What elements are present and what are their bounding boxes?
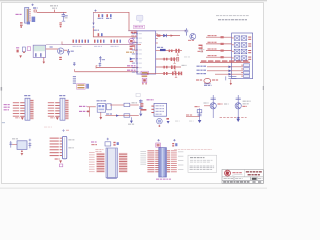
input net label 2 (magenta) xyxy=(79,111,87,112)
ground right xyxy=(139,114,142,117)
cap legs Q2 xyxy=(211,98,216,100)
top page edge shade (decorative) xyxy=(0,0,267,1)
wire to U6 xyxy=(12,143,17,145)
title block frame xyxy=(222,170,263,184)
ground left xyxy=(19,55,22,58)
net label VIN xyxy=(33,7,38,8)
IC U5 label (magenta) xyxy=(147,99,154,100)
net label (gray) xyxy=(50,5,58,6)
IC K1 relay block outline xyxy=(232,33,253,79)
net label bus2 (magenta) xyxy=(127,70,136,71)
ground dash under C2 xyxy=(62,20,65,23)
Q2 base wire xyxy=(204,105,210,107)
address text (dark red) xyxy=(246,171,262,175)
CN2 power flag xyxy=(62,129,65,132)
wire row A xyxy=(128,30,186,32)
row2 cap xyxy=(171,57,175,61)
SK1 right pin field xyxy=(119,153,128,173)
stub wire xyxy=(186,116,200,118)
cap C5 xyxy=(226,76,237,80)
stub net label xyxy=(195,106,200,107)
U10 left edge components xyxy=(132,45,138,50)
series resistor row 4 xyxy=(221,56,224,58)
resistor network RN8 xyxy=(77,84,86,90)
relay aux boxes right column xyxy=(241,64,249,78)
node stem red xyxy=(88,107,90,117)
stub box xyxy=(197,110,202,113)
label C6 xyxy=(71,51,74,52)
output wire row 3 xyxy=(215,73,243,75)
coil wire row 1 xyxy=(206,36,232,38)
label clk xyxy=(132,102,138,103)
crystal Y1 area xyxy=(99,56,102,62)
relay contact pair K1-1 xyxy=(232,36,247,41)
right branch diode + parts xyxy=(126,46,134,62)
resistor R in xyxy=(140,103,146,110)
sheet title line 2 xyxy=(218,19,247,20)
connector J1 bottom ground xyxy=(21,117,24,120)
SK1 top resistor xyxy=(113,142,118,146)
connector J2 right pin field xyxy=(65,100,68,120)
net label bus1 (magenta) xyxy=(127,65,136,66)
label input stub xyxy=(198,51,204,52)
cap legs Q3 xyxy=(236,98,241,100)
row2 end part xyxy=(176,57,178,61)
series resistor row 1 xyxy=(221,36,224,38)
label C2 value xyxy=(65,15,68,16)
oscillator X1 xyxy=(97,104,105,113)
red arrow below E row xyxy=(230,80,232,86)
stub ground xyxy=(198,120,202,123)
relay pin dots row 2 xyxy=(248,43,251,46)
SK2 caption (magenta) xyxy=(156,179,171,180)
bottom red part row xyxy=(196,78,218,83)
testpoint label xyxy=(50,46,53,47)
op-amp U3 xyxy=(58,48,64,54)
input stub component xyxy=(199,45,203,49)
wire second run xyxy=(93,28,137,37)
buffer U4 xyxy=(107,104,112,110)
node dot U6 xyxy=(21,150,23,152)
connector J2 bottom label xyxy=(50,116,55,119)
resistor R6 xyxy=(134,32,137,34)
relay contact pair K1-3 xyxy=(232,49,247,54)
connector J2 left pins + labels xyxy=(48,102,60,117)
SK1 body xyxy=(106,148,117,178)
power flag xyxy=(94,10,96,12)
fuse F1 xyxy=(34,10,36,12)
net label out 1 xyxy=(197,66,207,67)
label column small xyxy=(73,76,76,84)
oscillator X1 label xyxy=(97,100,107,101)
Q3 labels xyxy=(242,101,250,107)
SK2 left pin rows xyxy=(147,150,158,172)
node stem xyxy=(92,12,94,25)
row3 net label right xyxy=(182,65,187,66)
diode D out 1 xyxy=(229,66,232,69)
wire row B xyxy=(156,35,180,37)
ground stem below xyxy=(130,117,133,123)
U10 inner pin texts xyxy=(139,33,142,72)
connector J2 bottom ground xyxy=(56,117,59,120)
company name (red) xyxy=(232,172,242,175)
wire top run xyxy=(93,12,137,37)
connector CN1 body xyxy=(25,8,29,24)
wire VIN rail xyxy=(37,11,67,13)
resistor bank row baseline wire xyxy=(62,44,141,46)
capacitor C3 (blue box) xyxy=(27,22,30,25)
diode lower xyxy=(116,114,119,116)
crystal Y2 below U5 xyxy=(157,118,163,127)
ground X1 xyxy=(99,112,102,119)
ground sym xyxy=(92,23,94,25)
series caps right xyxy=(139,99,143,113)
capacitor C10 xyxy=(9,141,12,148)
diode D2 xyxy=(163,34,166,37)
faint pink dashes above CN2 xyxy=(44,126,52,129)
sheet title line 1 xyxy=(216,15,249,16)
row1 inductor L1 (dark blue) xyxy=(160,49,166,51)
resistor bank sub-labels xyxy=(73,45,119,48)
resistor R3 pair xyxy=(106,14,111,17)
relay pin dots row 1 xyxy=(248,37,251,40)
label below ground xyxy=(128,124,134,125)
faint net label right of rows xyxy=(184,56,190,59)
coil wire row 2 xyxy=(206,43,232,45)
regulator U2 xyxy=(33,45,45,57)
net label out 2 xyxy=(197,70,207,71)
stub cap xyxy=(198,114,202,116)
transistor Q1 xyxy=(190,33,196,39)
resistor R2 pair xyxy=(98,14,103,17)
wire clk 2 xyxy=(130,104,139,106)
wire U2 out xyxy=(46,48,58,50)
faint corner text xyxy=(199,49,204,52)
relay contact pair K1-4 xyxy=(232,56,247,61)
SK2 top cap 2 xyxy=(172,139,177,147)
power flag +V xyxy=(31,4,33,6)
wire U3 out xyxy=(64,49,68,51)
row1 wire xyxy=(156,50,182,52)
capacitor C4 xyxy=(185,28,189,35)
box lower xyxy=(124,114,130,117)
U10 left pin labels xyxy=(132,33,138,72)
CN2 flag label xyxy=(66,129,69,132)
net label row 2 xyxy=(208,42,217,43)
collector line Q2 xyxy=(212,95,214,118)
SK2 far-left gray labels xyxy=(140,151,146,164)
small parts left of U2 xyxy=(16,47,31,53)
bus wire 1 with arrow xyxy=(96,66,139,69)
label below xyxy=(204,85,212,86)
net label xyxy=(94,30,99,31)
faint pink row above notes box xyxy=(174,149,212,150)
row3 wire xyxy=(156,66,181,68)
net label row 1 xyxy=(208,35,217,36)
SK2 right pin rows xyxy=(167,150,177,172)
SK1 left pin field xyxy=(96,153,104,173)
arrow junction xyxy=(171,34,174,36)
diode D out 2 xyxy=(229,70,232,73)
row3 resistor xyxy=(163,66,167,69)
diode D out 3 xyxy=(229,73,232,76)
row4 resistor pack xyxy=(141,71,149,74)
title row cells text xyxy=(224,178,263,180)
bus wire 2 with arrow xyxy=(75,69,139,73)
connector J1 body xyxy=(25,98,30,120)
resistor R7 xyxy=(157,35,160,37)
output wire row 1 xyxy=(207,66,243,68)
company logo (red seal) xyxy=(225,170,231,176)
left page mark xyxy=(2,122,5,123)
row1 resistor xyxy=(169,50,173,53)
far-left magenta net labels xyxy=(4,104,10,110)
net label row 4 xyxy=(208,55,217,56)
spare gate symbol xyxy=(137,15,143,22)
SK1 upper pin labels xyxy=(95,149,103,152)
label Q1 xyxy=(188,40,194,41)
right frame tick xyxy=(263,86,264,90)
series resistor row 3 xyxy=(221,50,224,52)
net labels at box left edge xyxy=(131,34,136,37)
connector CN1 label xyxy=(16,14,22,15)
red bus with labels xyxy=(200,61,250,63)
resistor R5 xyxy=(131,32,134,34)
Q2 base label xyxy=(204,102,209,103)
SK1 bottom pins xyxy=(107,178,117,179)
capacitor C1 (blue box) xyxy=(32,17,36,22)
emitter bus (dashed) xyxy=(220,117,247,119)
node tick xyxy=(54,10,56,13)
net label (magenta, boxed) xyxy=(134,25,145,28)
stub label on wire xyxy=(186,114,192,115)
resistor in2 xyxy=(87,111,90,113)
SK1 far-left faint labels xyxy=(89,152,95,172)
capacitor C9 xyxy=(86,84,89,89)
wire in 1 xyxy=(87,106,96,108)
diode D1 xyxy=(59,22,61,27)
CN2 net labels column xyxy=(50,138,62,157)
capacitor C8 left xyxy=(73,62,76,66)
series resistor row 2 xyxy=(221,43,224,45)
relay pin dots row 3 xyxy=(248,50,251,53)
LED D3 chain below xyxy=(142,75,148,84)
row3 cap xyxy=(171,65,175,69)
SK2 body xyxy=(159,148,167,177)
ground Q3 xyxy=(236,119,240,122)
collector line Q3 xyxy=(237,95,239,122)
row4 parts xyxy=(163,72,182,76)
output wire row 2 xyxy=(207,70,243,72)
row2 resistor xyxy=(163,58,167,61)
relay contact pair K1-2 xyxy=(232,43,247,48)
SK2 far-right gray labels xyxy=(178,151,183,169)
input net label 1 (magenta) xyxy=(79,106,87,107)
stub vertical xyxy=(199,108,201,120)
bottom row text (dark) xyxy=(223,181,261,182)
resistor R4 pair xyxy=(98,33,103,36)
CN2 gray labels right xyxy=(68,139,74,148)
Q2 labels xyxy=(218,103,229,104)
connector J2 label xyxy=(59,95,65,96)
CN2 bottom parts xyxy=(55,158,63,166)
label lower xyxy=(106,113,112,114)
varistor RV1 (magenta circle) xyxy=(129,39,134,44)
wire clk xyxy=(110,104,124,106)
row end ground stubs xyxy=(173,53,179,78)
IC U5 xyxy=(154,103,167,116)
transistor Q2 xyxy=(210,103,216,109)
row1 cap xyxy=(175,49,179,53)
IC U6 xyxy=(17,141,27,150)
coil wire row 3 xyxy=(206,50,232,52)
row4 wire xyxy=(149,73,182,75)
SK1 top cap xyxy=(105,138,111,146)
row1 toplabel xyxy=(157,47,163,48)
net label row 3 xyxy=(208,48,217,49)
connector J1 right pin field xyxy=(30,100,33,120)
tiny ref box left of U5 xyxy=(136,93,140,96)
coil wire row 4 xyxy=(206,56,232,58)
connector J2 body xyxy=(60,98,65,120)
connector J1 bottom label xyxy=(15,116,20,119)
thermistor RT1 xyxy=(135,42,137,43)
SK1 top part labels xyxy=(91,141,97,145)
notes box xyxy=(188,155,217,172)
capacitor C2 xyxy=(62,12,65,20)
capacitor C7 xyxy=(99,60,102,67)
U5 left pins xyxy=(151,106,154,113)
label C10 xyxy=(12,138,18,139)
power flag U6 xyxy=(29,139,32,142)
connector J1 left pins + labels xyxy=(13,102,25,117)
resistor R clk xyxy=(124,103,130,106)
U10 right pin stubs xyxy=(156,34,158,44)
ground U6 xyxy=(21,153,24,156)
ground U2 xyxy=(43,58,45,62)
transistor Q3 xyxy=(235,103,241,109)
connector CN2 body xyxy=(62,136,66,158)
relay pin dots row 4 xyxy=(248,57,251,60)
net label out 3 xyxy=(197,73,207,74)
connector J1 label xyxy=(24,95,30,96)
resistor bank RN1..RN7 xyxy=(73,40,122,43)
capacitor C6 xyxy=(67,49,70,55)
bus wire labels xyxy=(201,60,248,61)
ground U5 xyxy=(166,118,169,124)
resistor R1 xyxy=(20,22,23,28)
capacitor C11 xyxy=(29,142,32,148)
lower wire xyxy=(105,115,138,117)
border frame (decorative) xyxy=(2,3,264,184)
IC U10 main controller box xyxy=(137,31,156,74)
connector CN1 pins xyxy=(29,9,31,21)
faint pin texts xyxy=(175,120,194,123)
power flag 2 xyxy=(92,26,94,28)
left frame fold tick xyxy=(1,87,2,91)
resistor below U3 xyxy=(59,57,62,60)
power rail top xyxy=(46,45,136,62)
SK2 top cap 1 xyxy=(156,139,161,147)
row2 wire xyxy=(156,58,179,60)
